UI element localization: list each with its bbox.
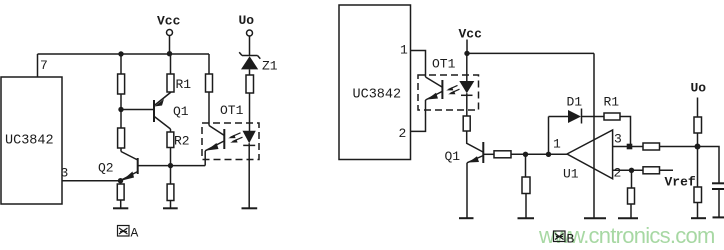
svg-text:UC3842: UC3842 — [353, 88, 402, 103]
wire R1 to output node — [620, 117, 631, 147]
node R1 feedback junction — [627, 144, 633, 150]
caption 图B — [554, 231, 566, 242]
wire R1 to Q1 emitter — [170, 92, 172, 93]
diode D1 — [568, 109, 582, 124]
ground (divider) — [518, 217, 535, 219]
ground (LED branch) — [242, 207, 258, 209]
wire node to op-amp input — [549, 153, 568, 155]
resistor LED series — [246, 75, 254, 93]
wire op-amp supply vertical — [593, 53, 595, 217]
terminal Uo (figure A) — [247, 30, 253, 36]
resistor R1 (figure B) — [604, 113, 620, 120]
resistor output series — [643, 143, 660, 150]
svg-text:3: 3 — [61, 166, 69, 181]
svg-text:UC3842: UC3842 — [5, 134, 54, 149]
node pin2 junction — [629, 168, 634, 173]
resistor divider-lower — [522, 177, 530, 194]
ground (pin2 divider) — [618, 217, 638, 219]
wire Q1 base — [121, 109, 154, 111]
svg-text:1: 1 — [553, 137, 561, 152]
LED OT1 (figure A) — [243, 131, 256, 208]
wire upper bias resistor to node — [120, 94, 122, 128]
wire Uo branch upper — [697, 98, 699, 118]
resistor Uo upper — [694, 117, 702, 133]
optocoupler OT1 (figure B) dashed box — [418, 75, 479, 110]
svg-text:2: 2 — [614, 166, 622, 181]
wire node up to D1 — [548, 117, 550, 155]
wire to capacitor — [698, 147, 720, 183]
svg-text:U1: U1 — [563, 167, 579, 182]
resistor pin2-lower — [628, 188, 635, 204]
wire rail to OT1 collector resistor — [208, 54, 210, 74]
wire Uo node down — [697, 147, 699, 188]
wire Vcc (figure B) — [466, 40, 468, 54]
transistor Q1 (PNP) — [154, 93, 171, 130]
svg-text:R2: R2 — [174, 134, 190, 149]
wire resistor to Q1 collector — [467, 131, 483, 152]
wire pin3 output row — [613, 146, 698, 148]
node divider junction — [523, 152, 528, 157]
light arrows OT1 (figure B) — [446, 85, 459, 94]
svg-text:Q1: Q1 — [445, 149, 461, 164]
wire resistor to output node — [697, 133, 699, 147]
resistor pin2 series — [643, 167, 660, 174]
svg-text:2: 2 — [399, 126, 407, 141]
svg-text:Vcc: Vcc — [459, 27, 483, 42]
wire pin7 to top rail — [37, 54, 39, 77]
node rail-left junction — [118, 51, 123, 56]
resistor LED-Q1 — [463, 116, 470, 131]
svg-text:Q1: Q1 — [173, 104, 189, 119]
svg-text:7: 7 — [40, 58, 48, 73]
resistor R2 — [167, 132, 174, 148]
caption 图A — [118, 226, 130, 237]
light arrows OT1 (figure A) — [228, 133, 242, 143]
svg-text:R1: R1 — [176, 77, 192, 92]
Vcc terminal (figure A) — [167, 30, 173, 36]
svg-text:D1: D1 — [567, 95, 583, 110]
svg-text:Vcc: Vcc — [157, 14, 181, 29]
wire zener to series resistor — [249, 69, 251, 75]
wire pin2 node down — [631, 170, 633, 188]
op-amp U1 — [567, 130, 613, 179]
node Vcc junction (figure B) — [464, 51, 469, 56]
wire resistor to phototransistor collector — [208, 92, 210, 126]
capacitor C — [712, 183, 724, 217]
node Uo junction — [695, 144, 701, 150]
ground (node divider) — [163, 207, 178, 209]
wire Vcc rail to R1 — [170, 54, 172, 74]
wire pin2 — [411, 100, 426, 131]
LED OT1 (figure B) — [459, 81, 474, 116]
svg-text:OT1: OT1 — [220, 103, 244, 118]
top rail (figure A) — [38, 53, 210, 55]
resistor OT1-collector pull-up — [206, 74, 213, 92]
ground (Uo divider) — [691, 217, 706, 219]
wire D1 to R1 — [582, 116, 605, 118]
svg-text:Vref: Vref — [665, 175, 696, 190]
phototransistor OT1 (figure B) — [426, 77, 443, 100]
ground (left branch) — [113, 207, 128, 209]
svg-text:1: 1 — [400, 43, 408, 58]
ground (Q1 emitter) — [459, 217, 474, 219]
ground (capacitor) — [713, 216, 724, 218]
node pin3 / Q2 emitter junction — [118, 178, 123, 183]
wire R2 to node — [170, 148, 172, 166]
resistor R1 — [167, 74, 174, 92]
wire rail to upper bias resistor — [120, 54, 122, 74]
svg-text:3: 3 — [614, 132, 622, 147]
wire divider node down — [525, 154, 527, 177]
svg-text:Z1: Z1 — [262, 59, 278, 74]
wire junction to emitter resistor — [120, 181, 122, 184]
wire resistor to ground — [697, 203, 699, 218]
resistor node-divider — [167, 184, 174, 201]
svg-text:OT1: OT1 — [432, 57, 456, 72]
resistor Uo lower — [694, 187, 702, 203]
svg-text:A: A — [131, 226, 139, 241]
wire lower bias resistor to Q2 collector — [120, 148, 122, 152]
wire node to OT1 emitter — [171, 165, 206, 167]
ground (op-amp) — [584, 217, 606, 219]
node D1 branch junction — [546, 152, 551, 157]
svg-text:B: B — [567, 232, 575, 247]
wire resistor to ground — [630, 204, 632, 218]
wire node down to divider resistor — [170, 166, 172, 184]
resistor Q1 base series — [494, 151, 511, 158]
wire emitter resistor to ground — [120, 200, 122, 208]
wire Q1 base — [484, 153, 494, 155]
wire resistor to divider node — [511, 153, 549, 155]
resistor lower-bias (left branch) — [118, 128, 125, 148]
node Vcc junction — [167, 51, 172, 56]
wire pin3 — [62, 180, 121, 182]
svg-text:R1: R1 — [604, 95, 620, 110]
wire Vcc to LED — [466, 53, 468, 81]
IC UC3842 (figure B) — [339, 5, 411, 160]
resistor upper-bias (left branch) — [118, 74, 125, 94]
svg-text:Q2: Q2 — [98, 161, 114, 176]
wire divider resistor to ground — [170, 201, 172, 208]
resistor Q2-emitter — [117, 184, 124, 200]
top rail (figure B) — [467, 52, 594, 54]
optocoupler OT1 (figure A) dashed box — [202, 123, 259, 160]
zener Z1 — [239, 52, 260, 69]
wire divider resistor to ground — [525, 194, 527, 218]
svg-text:Uo: Uo — [239, 13, 255, 28]
wire Q1 collector to R2 — [170, 129, 172, 132]
transistor Q2 (NPN) — [121, 152, 171, 181]
node Q1 base junction — [118, 107, 123, 112]
wire resistor to LED — [249, 93, 251, 131]
wire pin2 row — [613, 169, 673, 171]
IC UC3842 (figure A) — [1, 77, 62, 204]
wire Uo to zener — [249, 36, 251, 56]
svg-text:Uo: Uo — [691, 81, 707, 96]
wire pin1 — [411, 51, 426, 78]
transistor Q1 (figure B) — [467, 142, 483, 218]
node R2/Q2-base junction — [168, 163, 173, 168]
phototransistor OT1 (figure A) — [205, 126, 224, 166]
wire D1 anode — [549, 116, 569, 118]
